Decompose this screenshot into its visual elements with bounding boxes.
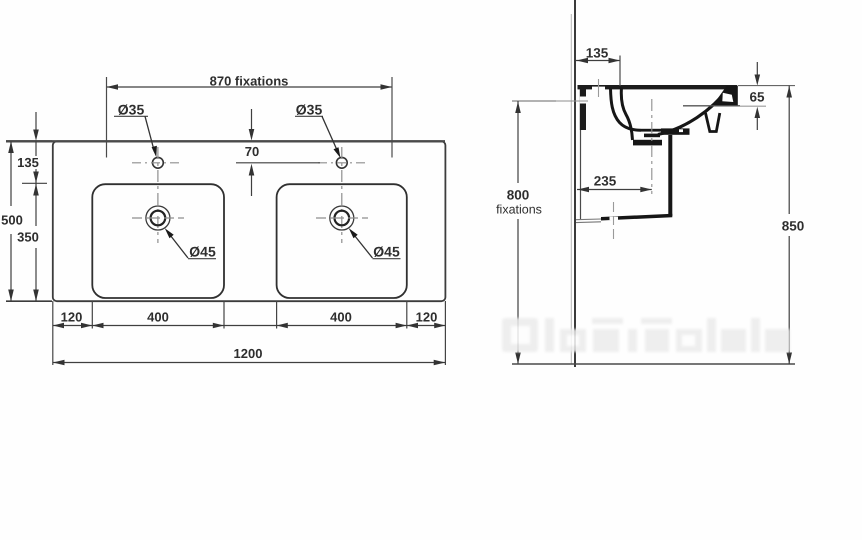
extension below basin2 right	[406, 301, 408, 329]
svg-text:65: 65	[749, 90, 765, 105]
faint watermark	[502, 318, 790, 352]
svg-text:Ø45: Ø45	[373, 244, 400, 260]
svg-text:1200: 1200	[234, 346, 263, 361]
fixation extension line left	[106, 77, 108, 158]
dim 870 fixations line	[107, 86, 393, 88]
drain 1 outer circle	[146, 206, 170, 230]
basin 1 rounded rect	[92, 184, 224, 298]
Ø35 leader 2	[322, 116, 339, 153]
drain locknut bar	[644, 134, 660, 138]
counter top edge (thick)	[6, 140, 445, 142]
skirt fixation centerline	[613, 202, 615, 239]
svg-text:400: 400	[147, 310, 169, 325]
svg-text:Ø35: Ø35	[296, 102, 323, 118]
svg-text:Ø45: Ø45	[189, 244, 216, 260]
Ø45 leader 2	[353, 233, 373, 258]
white fixation mark in underside	[679, 129, 683, 132]
skirt bottom bar	[601, 214, 672, 221]
bowl back inner wall	[611, 89, 642, 131]
front rim	[713, 86, 738, 106]
drain 1 inner circle	[151, 211, 166, 226]
dim 235 line	[577, 189, 652, 191]
svg-text:135: 135	[17, 155, 39, 170]
skirt bottom thin lines to wall	[576, 218, 601, 221]
svg-text:500: 500	[1, 213, 23, 228]
Ø45 leader 1	[169, 233, 189, 258]
support leg	[706, 113, 720, 132]
drain flange bar	[641, 129, 661, 132]
faucet hole 1 circle	[153, 157, 164, 168]
faucet hole 1 centerline horizontal	[132, 162, 180, 164]
mounting bracket	[580, 87, 586, 130]
dim 70 hole line	[236, 162, 320, 164]
svg-text:350: 350	[17, 230, 39, 245]
bowl back outer wall	[621, 88, 632, 141]
svg-text:400: 400	[330, 310, 352, 325]
chain arrows	[53, 323, 64, 328]
faucet hole slot in slab	[592, 87, 605, 90]
dim 135 line	[35, 141, 37, 183]
dim 135 side extension	[619, 56, 621, 87]
svg-text:135: 135	[586, 46, 609, 61]
svg-text:120: 120	[416, 310, 438, 325]
counter bottom edge extension line	[6, 300, 52, 302]
basin 2 rounded rect	[277, 184, 407, 298]
dim 70 lower arrow and shaft	[249, 164, 255, 176]
skirt fixation slot	[610, 217, 619, 220]
svg-text:70: 70	[245, 144, 259, 159]
drain centerline vertical	[651, 99, 653, 194]
svg-text:Ø35: Ø35	[118, 102, 145, 118]
skirt right vertical	[668, 135, 672, 216]
faucet hole 2 centerline horizontal	[318, 162, 368, 164]
Ø35 leader 1	[145, 116, 155, 152]
faucet slot centerline	[598, 79, 600, 97]
extension below basin1 right	[223, 301, 225, 329]
bowl sweep curve to front rim	[658, 89, 729, 135]
dim 800 fixations line	[517, 101, 519, 183]
underside line	[683, 105, 740, 107]
dim 135 tick line at basin top	[22, 182, 47, 184]
extension below basin2 left	[276, 301, 278, 329]
dim 135 side line	[576, 60, 620, 62]
dim 870 arrow right	[381, 84, 393, 90]
drain 1 crosshair horizontal	[132, 217, 184, 219]
counter top right extension for 850	[738, 85, 795, 87]
svg-text:850: 850	[782, 219, 805, 234]
extension below right edge	[444, 301, 446, 365]
dim 135 lower arrow	[33, 172, 39, 183]
faucet hole 2 circle	[336, 157, 347, 168]
drain 2 crosshair horizontal	[316, 217, 368, 219]
svg-text:120: 120	[61, 310, 83, 325]
svg-text:870 fixations: 870 fixations	[210, 74, 289, 89]
skirt back vertical line	[580, 130, 582, 219]
bracket fixation hole	[580, 97, 586, 104]
basin 1 vertical centerline	[157, 147, 159, 243]
dim 70 upper shaft and arrow	[251, 109, 253, 129]
dim 800 extension line	[512, 100, 556, 102]
dim 500 line	[10, 141, 12, 206]
svg-text:235: 235	[594, 174, 617, 189]
washbasin outer rectangle	[53, 141, 446, 301]
extension below left edge	[52, 301, 54, 365]
dim 870 arrow left	[107, 84, 119, 90]
basin 2 vertical centerline	[341, 147, 343, 243]
wall secondary line	[570, 14, 572, 364]
dim 1200 line	[53, 362, 446, 364]
drain 2 inner circle	[335, 211, 350, 226]
underside extension for 65	[740, 105, 766, 107]
svg-text:800: 800	[507, 188, 530, 203]
dim 65 lower arrow and shaft	[755, 107, 761, 118]
fixation hole centerline	[553, 100, 588, 102]
wall line	[574, 0, 576, 367]
dim 850 line	[788, 86, 790, 214]
dim 350 line	[35, 183, 37, 226]
extension below basin1 left	[91, 301, 93, 329]
counter top edge extension line	[6, 140, 52, 142]
floor line	[512, 363, 795, 365]
fixation extension line right	[391, 77, 393, 158]
bowl bottom skin under drain	[633, 140, 662, 146]
svg-text:fixations: fixations	[496, 203, 542, 217]
counter top slab	[578, 85, 738, 89]
front rim notch	[722, 93, 733, 102]
chain dim line 120/400/400/120	[53, 325, 446, 327]
dim 135 shaft above top edge	[35, 112, 37, 130]
drain 2 outer circle	[330, 206, 354, 230]
dim 65 upper shaft	[756, 62, 758, 75]
basin underside right bar	[661, 128, 690, 134]
